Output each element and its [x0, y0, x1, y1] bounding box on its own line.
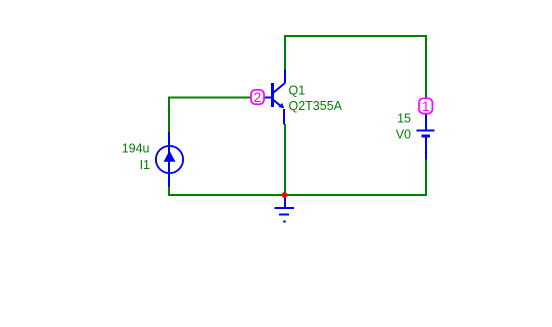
source pins [168, 132, 170, 187]
ground stem [284, 195, 286, 208]
svg-text:15: 15 [397, 112, 411, 126]
wire base horizontal [168, 97, 252, 99]
junction dot [282, 192, 288, 198]
wire collector riser [284, 35, 286, 70]
svg-text:1: 1 [422, 99, 430, 114]
base pin [264, 97, 271, 99]
source circle [156, 146, 183, 173]
svg-text:Q1: Q1 [289, 83, 306, 97]
positive plate [417, 130, 435, 132]
wire top horizontal [284, 35, 427, 37]
wire bottom horizontal [168, 194, 427, 196]
node 2 bubble [251, 90, 264, 105]
emitter arrow [279, 103, 285, 109]
wire left riser [168, 97, 170, 133]
emitter pin [283, 109, 285, 125]
positive pin [425, 114, 427, 131]
current source I1 [156, 132, 183, 187]
voltage source V0 battery [417, 114, 435, 160]
transistor Q1 [264, 70, 285, 125]
svg-text:2: 2 [254, 90, 262, 105]
ground bar 1 [275, 207, 295, 209]
wire right riser upper [425, 35, 427, 99]
ground bar 3 [283, 221, 286, 223]
collector pin [284, 70, 286, 84]
negative pin [425, 138, 427, 160]
ground bar 2 [279, 214, 289, 216]
collector lead [274, 83, 286, 93]
svg-text:I1: I1 [140, 158, 150, 172]
emitter lead [274, 100, 282, 106]
current arrow [164, 151, 176, 162]
negative plate [422, 135, 431, 138]
node 1 bubble [419, 98, 432, 114]
svg-text:V0: V0 [396, 128, 411, 142]
ground [275, 195, 295, 222]
wire emitter riser [284, 124, 286, 196]
wire left lower [168, 186, 170, 196]
base bar [271, 83, 274, 107]
svg-text:194u: 194u [122, 142, 150, 156]
svg-text:Q2T355A: Q2T355A [289, 99, 343, 113]
wire right riser lower [425, 159, 427, 196]
